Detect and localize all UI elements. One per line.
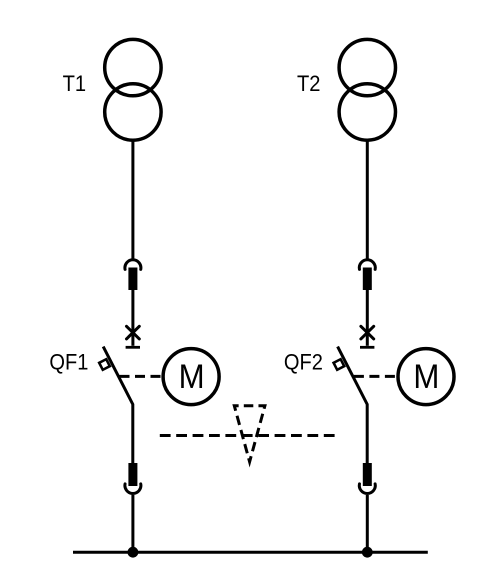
motor operator M2 circle: [398, 349, 454, 405]
breaker QF1 blade: [103, 347, 133, 464]
wire contact to breaker QF1: [131, 290, 134, 346]
withdrawable contact (male) top left: [128, 268, 137, 291]
wire contact to busbar left: [131, 495, 134, 552]
withdrawable contact (female) bottom left: [125, 484, 141, 494]
withdrawable contact (male) bottom right: [363, 463, 372, 486]
wire T2 to contact: [366, 142, 369, 259]
junction node right: [362, 547, 373, 558]
fixed contact bar left: [126, 346, 140, 349]
withdrawable contact (male) top right: [363, 268, 372, 291]
interlock dashed line: [160, 434, 336, 437]
svg-text:T1: T1: [63, 71, 87, 96]
dashed link QF2 to motor: [354, 375, 398, 378]
breaker QF2 square: [334, 359, 345, 370]
svg-text:QF1: QF1: [49, 350, 88, 375]
junction node left: [127, 547, 138, 558]
svg-text:M: M: [179, 358, 205, 396]
withdrawable contact (female) top left: [125, 260, 141, 270]
interlock dashed triangle: [234, 406, 265, 462]
withdrawable contact (female) bottom right: [359, 484, 375, 494]
wire T1 to contact: [131, 142, 134, 259]
withdrawable contact (female) top right: [359, 260, 375, 270]
busbar: [73, 551, 428, 554]
breaker QF2 blade: [338, 347, 368, 464]
svg-text:T2: T2: [297, 71, 321, 96]
dashed link QF1 to motor: [120, 375, 164, 378]
withdrawable contact (male) bottom left: [128, 463, 137, 486]
transformer T1: [105, 39, 161, 140]
wire contact to breaker QF2: [366, 290, 369, 346]
transformer T2: [339, 39, 395, 140]
wire contact to busbar right: [366, 495, 369, 552]
breaker function X mark left: [127, 326, 140, 339]
breaker function X mark right: [361, 326, 374, 339]
fixed contact bar right: [360, 346, 374, 349]
breaker QF1 square: [99, 359, 110, 370]
svg-text:M: M: [413, 358, 439, 396]
svg-text:QF2: QF2: [284, 350, 323, 375]
motor operator M1 circle: [163, 349, 219, 405]
